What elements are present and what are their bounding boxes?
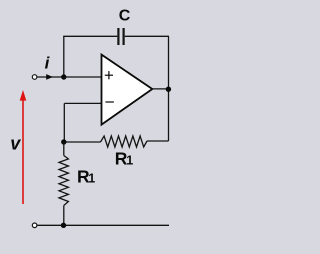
node: feedback junction dot	[61, 139, 66, 144]
wire: node to op-amp + input	[64, 76, 102, 78]
bottom terminal (open circle)	[32, 223, 37, 228]
resistor R1 (feedback, horizontal zigzag)	[101, 136, 148, 147]
wire: feedback right stub	[147, 140, 169, 142]
wire: node down to vertical resistor	[63, 142, 65, 156]
wire: top horizontal to capacitor left plate	[63, 35, 117, 37]
svg-text:v: v	[10, 133, 21, 153]
wire: op-amp output to node	[152, 88, 168, 90]
wire: feedback left stub to node	[64, 141, 101, 143]
wire: inverting input horizontal	[64, 102, 102, 104]
wire: inverting rail down to feedback node	[63, 103, 65, 142]
svg-text:C: C	[119, 8, 131, 25]
wire: top horizontal from capacitor right plate to right rail	[125, 35, 169, 37]
voltage arrow v (red)	[22, 100, 24, 205]
input terminal (open circle)	[32, 75, 37, 80]
wire: bottom rail	[37, 224, 169, 226]
capacitor C plates	[117, 28, 119, 45]
op-amp U1 triangle	[102, 55, 153, 125]
wire: top-left vertical rail from top wire down to input node	[63, 36, 65, 77]
wire: right vertical rail from top wire down to feedback corner	[168, 36, 170, 141]
svg-text:1: 1	[88, 172, 95, 186]
wire: resistor down to bottom rail	[63, 206, 65, 226]
current arrowhead	[46, 74, 53, 80]
op-amp - symbol	[105, 101, 114, 103]
node: bottom junction dot	[61, 223, 66, 228]
svg-text:1: 1	[126, 154, 133, 168]
node: input junction dot	[61, 74, 66, 79]
node: output junction dot	[166, 87, 171, 92]
wire: input lead with current arrow to node	[37, 76, 64, 78]
op-amp + symbol	[105, 74, 113, 76]
resistor R1 (grounding, vertical zigzag)	[59, 156, 68, 206]
